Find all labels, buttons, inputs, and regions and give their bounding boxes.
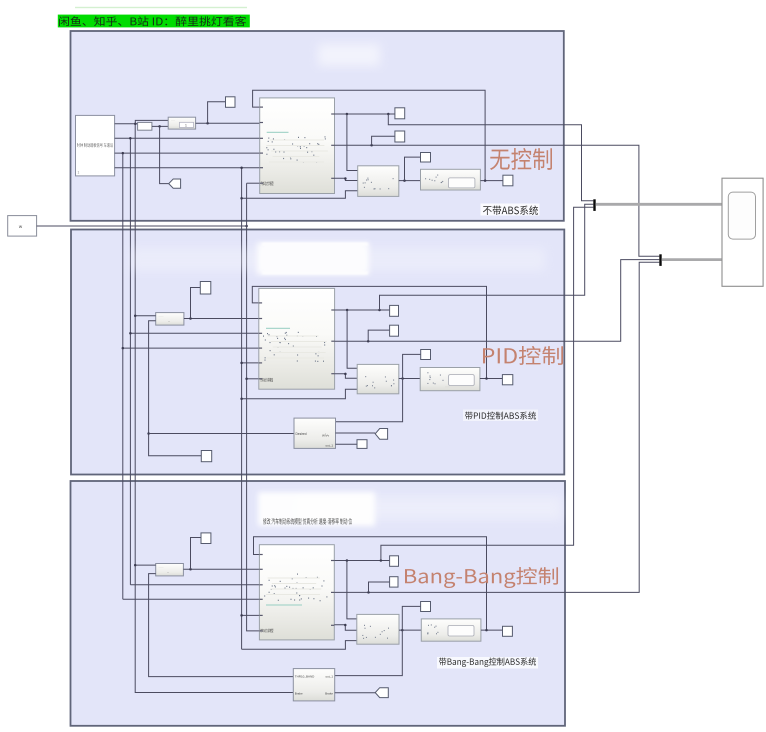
subsystem panel 3: Bang-Bang-control ABS system background <box>71 481 566 726</box>
mux tick bar 1 <box>593 199 595 211</box>
wire model out1 down to mux in1 (panel 2) <box>347 310 357 368</box>
wire mux out to display (panel 3) <box>399 629 421 631</box>
wire mux out to display (panel 2) <box>399 378 420 380</box>
wire branch above gain box to transfer fcn upper input (panel 1) <box>135 120 168 123</box>
outport square b (panel 1) <box>395 131 405 142</box>
mux tick bar 2 <box>659 254 661 266</box>
goto tag pentagon (panel 2) <box>375 429 387 440</box>
wire up to inport square (panel 1) <box>208 102 226 123</box>
scope block <box>722 178 763 286</box>
green ID banner <box>58 15 250 28</box>
outport square a (panel 1) <box>395 108 405 119</box>
outport square e (panel 2) <box>357 440 367 449</box>
branch up to inport square c (panel 3) <box>402 606 420 630</box>
outport square upper (panel 3) <box>390 556 399 567</box>
wire bus C stub to slip calc (panel 3) <box>135 564 156 566</box>
wire model out2 panel exit up to tick2 (panel 3) <box>334 262 659 592</box>
faint green smear at top <box>75 7 247 8</box>
goto tag pentagon (panel 3) <box>375 688 388 698</box>
wire PID out to goto tag (panel 2) <box>336 432 376 434</box>
wire mux feed from bus D to mux in3 (panel 1) <box>242 191 358 199</box>
wire bus D stub to model port5 (panel 2) <box>242 362 259 364</box>
feedback wire loop (panel 1) <box>253 90 486 180</box>
wire model out1 to outport + panel exit up to tick1 (panel 3) <box>334 560 389 562</box>
branch to outport square lower (panel 3) <box>369 582 390 592</box>
feedback wire loop (panel 2) <box>252 286 486 378</box>
vertical wire bus D (x=241.6) <box>241 168 243 650</box>
PID controller block (panel 2) <box>294 418 336 448</box>
wire bus D stub to model port5 (panel 3) <box>242 614 260 616</box>
svg-text:·····: ····· <box>159 314 164 318</box>
goto tag pentagon (panel 1) <box>169 179 181 188</box>
wire mux feed from bus D to mux in3 (panel 3) <box>242 641 357 650</box>
vehicle dynamics model block (panel 1) <box>260 98 335 194</box>
ABS vehicle model block (panel 2) <box>259 288 335 389</box>
display scope block (panel 2) <box>420 368 480 391</box>
branch up to inport square (panel 2) <box>191 288 201 319</box>
wire display out to outport d (panel 2) <box>480 378 503 380</box>
mux block (panel 3) <box>357 614 399 644</box>
wire gain to transfer fcn (panel 1) <box>152 125 168 127</box>
wire model out2 panel exit up to tick2 (panel 2) <box>335 260 660 342</box>
wire source out2 (panel 1) <box>115 137 260 139</box>
wire display out to outport d (panel 1) <box>480 180 503 182</box>
thick signal line to scope input 1 <box>596 203 722 206</box>
vertical wire bus E (x=246.6) desired slip <box>247 183 260 631</box>
subsystem panel 1: no-ABS system background <box>71 31 564 221</box>
svg-text:Brake: Brake <box>295 691 303 695</box>
vertical wire bus A (x=122.8) <box>122 153 124 599</box>
wire slip calc lower-left down to PID input (panel 2) <box>149 321 202 456</box>
svg-text:1: 1 <box>78 171 80 175</box>
wire bus E stub to model port6 (panel 2) <box>247 378 259 380</box>
subsystem panel 2: PID-control ABS system background <box>71 230 564 475</box>
label PID ABS system <box>463 410 538 422</box>
wire mux out to display (panel 1) <box>399 180 421 182</box>
outport square d (panel 1) <box>503 175 513 186</box>
svg-text:out_1: out_1 <box>325 444 333 448</box>
svg-text:··: ·· <box>167 570 169 574</box>
outport square d (panel 2) <box>502 375 512 385</box>
svg-text:··: ·· <box>168 320 170 324</box>
thick signal line to scope input 2 <box>662 258 722 261</box>
wire bus B stub to model port3 (panel 3) <box>130 584 259 586</box>
branch to outport square b (panel 1) <box>372 136 395 145</box>
slip calc block (panel 3) <box>156 564 184 576</box>
svg-text:out_1: out_1 <box>325 675 333 679</box>
inport square c (panel 1) <box>421 153 431 163</box>
constant block w <box>8 216 37 237</box>
wire transfer fcn to vehicle model port2 (panel 1) <box>196 122 260 124</box>
wire bus A stub to model port4 (panel 2) <box>123 347 259 349</box>
branch up to inport square c (panel 1) <box>405 157 421 181</box>
wire model port3 to mux in2 (panel 3) <box>334 625 357 630</box>
svg-text:Desired: Desired <box>296 432 307 436</box>
faint white smudge panel 1 top <box>318 44 380 66</box>
display scope block (panel 3) <box>421 619 481 641</box>
wire model out1 to outport square and panel exit (panel 1) <box>335 113 395 115</box>
source block: signals source (panel 1) <box>76 115 115 175</box>
svg-text:W/Vv: W/Vv <box>322 434 330 438</box>
red annotation text: no control <box>490 148 552 170</box>
red annotation text: Bang-Bang control <box>405 567 558 588</box>
vertical wire bus C (x=135.2) <box>135 124 293 693</box>
wire from w block to desired-slip net <box>37 225 247 227</box>
inport square top (panel 2) <box>200 282 211 295</box>
wire model out1 to outport + panel exit up to tick1 (panel 2) <box>335 309 390 311</box>
outport square lower (panel 2) <box>390 325 399 336</box>
ABS vehicle model block (panel 3) <box>259 545 334 640</box>
wire bus C stub to slip calc (panel 2) <box>135 315 156 317</box>
svg-text:THR10_BAND: THR10_BAND <box>295 675 315 679</box>
slip calc block (panel 2) <box>156 313 184 326</box>
svg-text:····: ···· <box>171 118 175 122</box>
wire down to PID output port (panel 2) <box>336 379 403 422</box>
wire source out1 to gain box (panel 1) <box>115 123 138 125</box>
outport square lower (panel 3) <box>390 577 398 587</box>
wire slip calc lower-left down to BangBang input (panel 3) <box>149 574 294 677</box>
vertical wire bus B (x=130.4) <box>129 138 131 585</box>
branch up to inport square (panel 3) <box>191 538 202 570</box>
wire mux feed from bus D to mux in3 (panel 2) <box>242 389 358 399</box>
branch to outport square lower (panel 2) <box>368 330 389 341</box>
label no-ABS system <box>481 204 540 216</box>
wire down to goto tag (panel 1) <box>160 126 169 183</box>
wire source out3 (panel 1) <box>115 152 260 154</box>
inport square c (panel 3) <box>421 602 431 612</box>
inport square top (panel 3) <box>201 533 211 544</box>
wire PID out2 to outport square (panel 2) <box>336 443 358 445</box>
feedback wire loop (panel 3) <box>254 537 487 630</box>
scope inner screen <box>728 192 755 239</box>
wire down to BangBang output port (panel 3) <box>335 630 403 676</box>
BangBang controller block (panel 3) <box>293 669 334 701</box>
wire model out2 across panel exit to mux2 tick (panel 1) <box>335 145 660 256</box>
wire model out1 down to mux in1 (panel 3) <box>347 561 357 619</box>
display scope block (panel 1) <box>421 169 481 190</box>
wire slip calc out to model port2 (panel 2) <box>184 318 259 320</box>
label BangBang ABS system <box>437 657 538 669</box>
mux block (panel 2) <box>357 364 399 393</box>
inport square top (panel 1) <box>226 97 236 108</box>
white annotation band in panel 2 <box>130 248 545 271</box>
wire bus A stub to model port4 (panel 3) <box>123 598 260 600</box>
outport square upper (panel 2) <box>390 305 399 316</box>
annotation tiny text in panel 3 <box>263 518 352 524</box>
red annotation text: PID control <box>483 346 563 365</box>
wire port6 to desired slip bus (panel 1) <box>247 182 260 184</box>
outport square lower-left (panel 2) <box>201 451 211 462</box>
svg-text:Brake: Brake <box>325 691 333 695</box>
wire model port3 to mux in2 (panel 2) <box>335 374 358 379</box>
wire BangBang out to goto tag (panel 3) <box>335 692 376 694</box>
wire slip calc out to model port2 (panel 3) <box>183 568 259 570</box>
wire model port3 to mux in2 (panel 1) <box>335 178 358 180</box>
wire display out to outport d (panel 3) <box>481 629 503 631</box>
mux block (panel 1) <box>358 166 399 197</box>
gain box (panel 1) <box>138 122 152 130</box>
wire source out4 (panel 1) <box>115 167 260 169</box>
transfer fcn block (panel 1) <box>168 117 195 129</box>
branch up to inport square c (panel 2) <box>403 354 421 378</box>
svg-text:·····: ····· <box>159 565 164 569</box>
wire to PID controller input (panel 2) <box>149 433 294 435</box>
outport square d (panel 3) <box>503 626 513 636</box>
inport square c (panel 2) <box>421 350 431 360</box>
wire bus B stub to model port3 (panel 2) <box>130 332 258 334</box>
wire model out1 down to mux in1 (panel 1) <box>347 114 358 171</box>
white annotation band in panel 3 <box>300 496 562 520</box>
svg-text:1: 1 <box>185 124 187 128</box>
